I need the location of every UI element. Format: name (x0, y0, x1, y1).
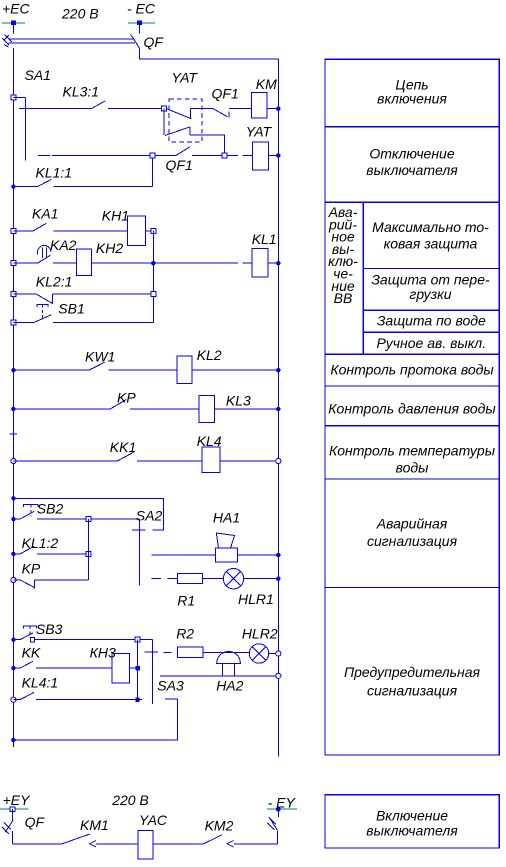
svg-text:KL1: KL1 (252, 231, 277, 247)
table sub row2 text (371, 271, 490, 302)
contact KW1 (13, 362, 177, 370)
wire collector vertical (152, 231, 154, 322)
svg-text:QF1: QF1 (212, 86, 239, 102)
node HA1 bus junction (276, 553, 280, 557)
node bell bus junction (276, 673, 281, 678)
contact QF1 aux upper (213, 109, 251, 118)
wire YAT to bus (268, 155, 278, 157)
svg-text:Контроль протока воды: Контроль протока воды (330, 362, 494, 378)
contact KK (13, 661, 112, 668)
breaker QF left hatch (2, 35, 12, 47)
svg-text:Аварийная: Аварийная (376, 516, 448, 532)
contact QF1 aux lower (155, 147, 222, 156)
svg-text:KL3:1: KL3:1 (63, 84, 100, 100)
svg-text:SB1: SB1 (58, 300, 84, 316)
breaker QF bottom hatch (2, 820, 13, 834)
svg-text:- ЕС: - ЕС (127, 1, 156, 17)
svg-text:YAT: YAT (246, 124, 273, 140)
wire to selector SA2 (91, 518, 140, 520)
svg-text:KW1: KW1 (85, 348, 115, 364)
selector SA3 lever (145, 640, 158, 704)
contact KP alarm (13, 580, 88, 589)
node rung2 YAT junction (222, 153, 227, 158)
contact KK1 (13, 452, 202, 461)
node KL4:1 collector junction (135, 698, 139, 702)
contact YAT upper (167, 109, 214, 119)
wire KL2 to bus (192, 369, 278, 371)
node rung2 KL1:1 junction (150, 153, 155, 158)
wire bottom line left (13, 843, 63, 845)
contact KM2 (204, 835, 278, 847)
wire SB3 line to SA3 (140, 639, 153, 641)
svg-text:KM1: KM1 (80, 817, 109, 833)
svg-text:KM: KM (256, 76, 277, 92)
right bus (277, 59, 279, 757)
wire KL1 to bus (268, 262, 278, 264)
node KW1 bus junction (11, 368, 15, 372)
svg-text:KA1: KA1 (32, 206, 58, 222)
wire SA3 return (13, 699, 177, 740)
contact YAT lower (164, 109, 224, 154)
node +EY terminal (0, 807, 29, 812)
svg-text:SB2: SB2 (37, 501, 64, 517)
svg-text:KL4:1: KL4:1 (22, 675, 59, 691)
svg-text:HA1: HA1 (213, 510, 240, 526)
svg-text:KL1:1: KL1:1 (36, 165, 73, 181)
svg-text:QF: QF (144, 34, 165, 50)
svg-text:QF: QF (25, 814, 46, 830)
svg-text:Отключение: Отключение (369, 145, 454, 161)
relay KH3 (112, 654, 129, 683)
relay coil KL4 (202, 447, 220, 473)
wire KL3 to bus (215, 408, 279, 410)
node alarm top bus junction (11, 496, 15, 500)
selector SA2 lever (132, 520, 146, 586)
svg-text:сигнализация: сигнализация (367, 533, 458, 549)
bottom caption text (366, 808, 458, 839)
lamp HLR2 (249, 644, 268, 663)
wire lamp branch dash (152, 578, 178, 580)
breaker -EY hatch (268, 818, 278, 831)
node YAT bus junction (276, 153, 280, 157)
wire R1 to HLR1 (203, 578, 224, 580)
table row6 text (329, 443, 496, 476)
contact KA1 (13, 223, 127, 231)
node KA2 bus junction (11, 261, 16, 266)
svg-text:QF1: QF1 (166, 157, 193, 173)
resistor R1 (178, 574, 203, 584)
table row line 3 (325, 353, 499, 355)
trip coil YAT (252, 142, 268, 170)
lamp HLR1 (223, 569, 243, 589)
node SB1 bus junction (11, 320, 16, 325)
svg-text:KL4: KL4 (197, 433, 222, 449)
table frame (325, 59, 499, 755)
wire KH1 to collector (145, 230, 153, 232)
svg-text:HLR2: HLR2 (242, 626, 278, 642)
node KL2 bus junction (276, 368, 280, 372)
svg-text:KH1: KH1 (102, 207, 129, 223)
contact KL1:1 (13, 158, 152, 187)
svg-text:Защита по воде: Защита по воде (377, 313, 486, 329)
table sub row line 2 (363, 309, 499, 311)
contact KL4:1 (13, 692, 141, 699)
table column divider (362, 202, 364, 354)
table row8 text (344, 664, 481, 699)
wire alarm collector vertical (88, 519, 90, 580)
svg-text:KK1: KK1 (110, 439, 136, 455)
table row line 2 (325, 201, 499, 203)
left bus (12, 48, 14, 747)
wire HLR1 to bus (244, 578, 279, 580)
node KK1 bus junction (11, 458, 16, 463)
wire R2 to HLR2 (203, 652, 249, 654)
wire KL4 to bus (220, 460, 278, 462)
relay KH2 (77, 249, 92, 276)
svg-text:KP: KP (22, 561, 41, 577)
svg-text:Предупредительная: Предупредительная (344, 664, 481, 680)
svg-text:220 В: 220 В (61, 6, 99, 22)
node KL2:1 bus junction (11, 292, 16, 297)
svg-text:Контроль давления воды: Контроль давления воды (328, 401, 496, 417)
wire -EC drop (139, 23, 141, 34)
svg-text:- EY: - EY (268, 795, 297, 811)
node collector rung3 junction (151, 292, 156, 297)
table sub row1 text (372, 219, 489, 252)
bottom caption box (325, 795, 499, 848)
svg-text:KL2:1: KL2:1 (36, 273, 73, 289)
node A rung1 (162, 106, 167, 111)
table sub row line 3 (363, 331, 499, 333)
svg-text:KL1:2: KL1:2 (22, 535, 59, 551)
svg-text:R2: R2 (176, 626, 194, 642)
wire warning collector vertical (137, 640, 139, 700)
node HLR2 bus junction (276, 651, 281, 656)
node KL1:1 bus junction (11, 184, 15, 188)
svg-text:SA2: SA2 (136, 507, 163, 523)
wire QF to right bus (140, 49, 279, 60)
wire YAC to KM2 (153, 843, 204, 845)
table row1 text (377, 77, 447, 107)
node KL1:2 bus junction (11, 552, 15, 556)
resistor R2 (177, 647, 203, 657)
svg-text:+EY: +EY (3, 792, 32, 808)
svg-text:сигнализация: сигнализация (367, 683, 458, 699)
svg-text:220 В: 220 В (111, 792, 149, 808)
wire rung2 to YAT coil (227, 155, 253, 157)
wire alarm feed to SA2 throw (13, 498, 163, 530)
wire -EY drop (277, 809, 279, 817)
wire rung KA2 to KL1 (91, 262, 252, 264)
node -EC terminal (128, 20, 155, 25)
relay coil KL3 (199, 395, 215, 422)
contact KL2:1 (13, 294, 150, 304)
node SA3 return bus junction (11, 738, 15, 742)
svg-text:HA2: HA2 (216, 678, 243, 694)
switch SA1 (11, 95, 25, 161)
svg-text:KP: KP (117, 389, 136, 405)
relay KH1 (128, 216, 146, 246)
svg-text:SA1: SA1 (25, 67, 51, 83)
node KP bus junction (11, 407, 15, 411)
wire HLR2 to bus (269, 653, 279, 655)
breaker QF right contact blade (131, 35, 140, 49)
node KL4 bus junction (276, 458, 281, 463)
svg-text:KK: KK (22, 645, 41, 661)
wire R2 branch dash (164, 652, 172, 654)
svg-text:KH2: KH2 (96, 240, 123, 256)
contactor coil KM (252, 93, 268, 118)
wire rung2 left (SA1 throw) (38, 155, 150, 157)
bell HA2 (217, 651, 241, 675)
svg-text:SB3: SB3 (36, 621, 63, 637)
contact KL1:2 (13, 546, 86, 554)
svg-text:YAT: YAT (172, 70, 199, 86)
svg-text:выключателя: выключателя (366, 162, 458, 178)
node KK bus junction (11, 666, 15, 670)
table row2 text (366, 145, 458, 178)
wire rung1 left (19, 108, 92, 110)
node SB2 collector junction (86, 517, 91, 522)
svg-text:воды: воды (396, 460, 430, 476)
svg-text:YAC: YAC (139, 812, 168, 828)
contact KP (13, 400, 199, 410)
wire horn branch (152, 554, 216, 556)
contact KL3:1 (91, 101, 161, 109)
node HLR1 bus junction (276, 577, 280, 581)
wire bell return line (160, 675, 278, 677)
table row7 text (367, 516, 458, 550)
node SB3 bus junction (11, 638, 15, 642)
svg-text:Включение: Включение (376, 808, 448, 824)
pushbutton SB1 (13, 304, 153, 322)
node KP alarm bus junction (11, 577, 16, 582)
node +EC terminal (2, 20, 25, 25)
node KM bus junction (276, 107, 280, 111)
horn HA1 (215, 533, 237, 562)
svg-text:KM2: KM2 (205, 818, 234, 834)
svg-text:SA3: SA3 (157, 678, 184, 694)
breaker QF double bar (8, 39, 135, 43)
node SB3 collector junction (135, 637, 140, 642)
node KL1:2 collector junction (86, 551, 91, 556)
bus tick mark (10, 433, 18, 435)
table row line 5 (325, 425, 499, 427)
wire -EY rise (277, 831, 279, 844)
svg-text:ВВ: ВВ (334, 290, 353, 306)
contact KA2 (13, 245, 76, 263)
svg-text:KA2: KA2 (50, 237, 77, 253)
electromagnet YAT dashed box (169, 99, 202, 142)
node KL3 bus junction (276, 407, 280, 411)
wire +EC drop (12, 23, 14, 34)
node KL1 bus junction (276, 261, 280, 265)
svg-text:KL2: KL2 (197, 347, 222, 363)
relay coil KL2 (177, 356, 192, 384)
node collector top (151, 229, 156, 234)
wire HA1 to bus (238, 554, 279, 556)
pushbutton SB3 (13, 626, 135, 642)
svg-text:ковая защита: ковая защита (384, 236, 478, 252)
svg-text:КН3: КН3 (90, 645, 116, 661)
wire +EY drop (12, 809, 14, 820)
svg-text:Контроль температуры: Контроль температуры (329, 443, 496, 459)
svg-text:HLR1: HLR1 (238, 591, 274, 607)
svg-text:R1: R1 (177, 592, 195, 608)
closing coil YAC (138, 830, 153, 859)
svg-text:включения: включения (377, 91, 447, 107)
node KH3 collector junction (135, 666, 139, 670)
node SB2 bus junction (11, 517, 15, 521)
pushbutton SB2 (13, 505, 86, 519)
node KA1 bus junction (11, 229, 16, 234)
svg-text:+ЕС: +ЕС (2, 1, 31, 17)
svg-text:грузки: грузки (409, 286, 451, 302)
svg-text:Ручное ав. выкл.: Ручное ав. выкл. (376, 335, 486, 351)
table row line 4 (325, 385, 499, 387)
table sub row line 1 (363, 267, 499, 269)
table row3 left column text (328, 204, 359, 306)
wire QF bottom to line (12, 831, 14, 844)
node -EY terminal (267, 807, 297, 812)
svg-text:выключателя: выключателя (366, 823, 458, 839)
relay coil KL1 (252, 249, 268, 278)
table row line 7 (325, 587, 499, 589)
svg-text:Максимально то-: Максимально то- (372, 219, 489, 235)
wire KM to bus (267, 108, 278, 110)
node KL4:1 bus junction (11, 697, 16, 702)
contact KM1 (62, 834, 138, 847)
table row line 1 (325, 126, 499, 128)
wire KH3 to collector (130, 667, 138, 669)
svg-text:KL3: KL3 (226, 393, 251, 409)
table row line 6 (325, 478, 499, 480)
node collector rung2 junction (151, 261, 155, 265)
